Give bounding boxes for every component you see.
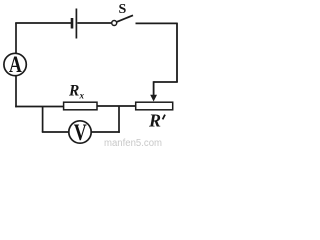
svg-text:R: R: [68, 83, 79, 100]
wire voltmeter left horizontal: [42, 131, 69, 133]
wire left vertical (ammeter top to top-left corner): [15, 23, 17, 54]
ammeter A circle: [4, 53, 26, 75]
wire left vertical (ammeter bottom to corner): [15, 76, 17, 108]
rheostat slider arrowhead: [150, 95, 157, 102]
switch pivot circle: [112, 21, 117, 26]
voltmeter V circle: [69, 121, 91, 143]
rheostat R' box: [136, 102, 173, 110]
battery positive plate (tall thin): [75, 9, 77, 39]
wire battery to switch: [77, 22, 111, 24]
svg-text:manfen5.com: manfen5.com: [104, 138, 162, 148]
wire top horizontal (corner to battery): [15, 22, 71, 24]
wire rheostat slider stem: [153, 81, 155, 96]
wire voltmeter right horizontal: [91, 131, 120, 133]
svg-text:x: x: [79, 91, 85, 101]
resistor Rx box: [64, 102, 97, 110]
wire rheostat to Rx: [97, 105, 136, 107]
svg-text:R: R: [148, 111, 161, 131]
svg-text:S: S: [119, 2, 127, 17]
wire switch to top-right corner: [136, 22, 178, 24]
wire rheostat slider feed: [154, 81, 178, 83]
wire voltmeter branch vertical left: [42, 106, 44, 132]
svg-text:V: V: [74, 120, 87, 145]
switch blade: [117, 15, 133, 21]
wire right vertical: [176, 23, 178, 82]
battery negative plate (short thick): [71, 18, 74, 29]
wire Rx to bottom-left corner: [15, 106, 63, 108]
svg-text:A: A: [9, 52, 22, 77]
wire voltmeter branch vertical right: [118, 106, 120, 133]
